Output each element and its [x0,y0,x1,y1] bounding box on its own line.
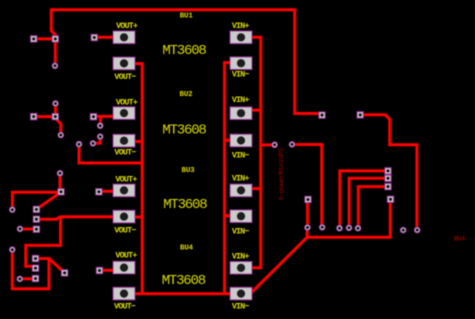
pad P1 [31,36,37,42]
pad VIN- BU2 [230,134,252,147]
via V15 [319,224,325,230]
via V16 [305,225,311,231]
pad VIN+ BU2 [230,107,252,120]
wire diagonal P7 to P8 [39,193,60,207]
pad P3 [91,34,97,40]
wire bridge VOUT- BU2 [134,140,142,143]
pad VOUT+ BU2 [113,107,135,120]
svg-text:BU4: BU4 [180,245,194,253]
svg-text:VOUT−: VOUT− [114,73,136,82]
via V2 [53,101,59,107]
via V3 [58,132,64,138]
via V9 [9,207,15,213]
svg-text:MT3608: MT3608 [163,197,207,213]
pad VOUT- BU1 [113,57,135,70]
svg-text:MT3608: MT3608 [162,273,206,289]
svg-text:VOUT−: VOUT− [114,227,136,236]
pad P13 [32,275,38,281]
wire via V14 to via V15 [294,145,322,226]
svg-text:BU4: BU4 [454,236,465,244]
wire via V4 to pad P7 [59,176,62,189]
pad S4 [387,196,393,202]
svg-text:VOUT+: VOUT+ [116,22,138,31]
via V10 [17,226,23,232]
wire pad P15 to VOUT+ BU4 [101,269,114,272]
svg-text:VIN−: VIN− [232,151,250,160]
wire via V6 elbow to via V7 [95,138,100,143]
via V13 [272,142,278,148]
pad VOUT- BU4 [113,287,135,300]
via V1 [52,63,58,69]
pad P18 [357,112,363,118]
pad VOUT- BU2 [113,134,135,147]
via V7 [90,141,96,147]
pad P10 [33,226,39,232]
wire VIN+ vertical bus [252,37,261,268]
via V12 [17,276,23,282]
wire VOUT- vertical bus [134,64,142,293]
via V5 [97,123,103,129]
svg-text:BU1: BU1 [180,12,194,20]
via V6 [97,134,103,140]
pad P16 [96,189,102,195]
via V18 [346,225,352,231]
svg-text:VOUT+: VOUT+ [115,175,137,184]
pad VOUT- BU3 [113,210,135,223]
pad P2 [52,36,58,42]
pad VIN+ BU1 [230,31,252,44]
pad S3 [385,183,391,189]
pad VIN- BU4 [230,287,252,300]
wire via V10 to pad P10 [22,228,33,231]
wire pads pair row2 with via link and diagonal to via V3 [34,106,61,133]
svg-text:VIN−: VIN− [232,303,250,312]
via V11 [9,247,15,253]
svg-text:VOUT−: VOUT− [114,303,136,312]
wire via V12 to pad P13 [22,277,33,280]
svg-text:VOUT+: VOUT+ [116,99,138,108]
via V14 [289,142,295,148]
svg-text:X−powerMiniUPS: X−powerMiniUPS [278,148,286,200]
wire bridge VIN- BU2 [225,139,232,142]
via V8 [76,141,82,147]
via V20 [414,227,420,233]
pad P11 [32,255,38,261]
pad VIN+ BU4 [230,262,252,275]
wire stair L1 [340,171,385,225]
pad P9 [33,216,39,222]
via V19 [355,225,361,231]
pad P8 [33,206,39,212]
pad P4b [52,113,58,119]
wire bottom horizontal VOUT- BU4 to VIN- BU4 [135,292,232,295]
pad VOUT+ BU3 [113,184,135,197]
via V17 [337,225,343,231]
wire bridge VIN- BU3 [225,214,232,217]
pad P12 [32,265,38,271]
wire pad P18 chain right and down to via V20 [364,115,417,227]
svg-text:BU2: BU2 [179,91,192,99]
pad S1 [385,168,391,174]
pad P17 [305,196,311,202]
svg-text:VIN−: VIN− [232,71,250,80]
svg-text:MT3608: MT3608 [162,43,206,59]
pad P14 [61,270,67,276]
wire VIN- vertical bus [225,63,232,293]
wire top bus BU1 VOUT left pad to right corner down to pad P5 [51,10,321,114]
wire branch down to pad P12 [26,218,61,267]
wire pad P16 to VOUT+ BU3 [101,190,114,193]
wire bridge VIN+ BU2 [252,109,261,112]
svg-text:VOUT−: VOUT− [114,148,136,157]
wire pads pair row1 and drop to via [34,39,56,64]
via V4 [57,170,63,176]
wire stair L3 [358,187,385,225]
pad VIN- BU1 [230,57,252,70]
svg-text:VIN+: VIN+ [232,174,250,183]
wire via V8 down and right to VOUT- bus [79,147,141,164]
svg-text:VIN+: VIN+ [232,96,250,105]
wire bridge VOUT- BU3 [134,216,142,219]
wire pad P7 left and down to via V9 [12,192,58,206]
svg-text:VOUT+: VOUT+ [115,252,137,261]
wire P3 to VOUT+ BU1 [94,36,116,39]
wire P6 to VOUT+ BU2 with drop to via V5 [96,116,115,123]
wire pad P11 chain loop to via V11 and diagonal to pad P14 [12,253,63,289]
svg-text:VIN+: VIN+ [232,22,250,31]
pad P6 [90,114,96,120]
pad P15 [96,267,102,273]
pad VOUT+ BU1 [113,31,135,44]
pad P5 [319,112,325,118]
wire stair L2 [349,178,385,224]
pad VIN- BU3 [230,210,252,223]
pad VOUT+ BU4 [113,261,135,274]
pad P4 [31,113,37,119]
svg-text:BU3: BU3 [181,167,195,175]
wire diagonal VIN- BU4 to junction with long horizontal and stair pad S4 [252,202,391,293]
pad VIN+ BU3 [230,184,252,197]
pad P7 [58,189,64,195]
pad S2 [385,175,391,181]
via V21 [400,227,406,233]
svg-text:VIN+: VIN+ [232,252,250,261]
wire P9 to VOUT- BU3 [40,217,116,219]
wire stub to via V13 [261,143,272,146]
wire bridge VIN+ BU3 [252,187,261,190]
svg-text:VIN−: VIN− [232,228,250,237]
svg-text:MT3608: MT3608 [162,122,206,138]
